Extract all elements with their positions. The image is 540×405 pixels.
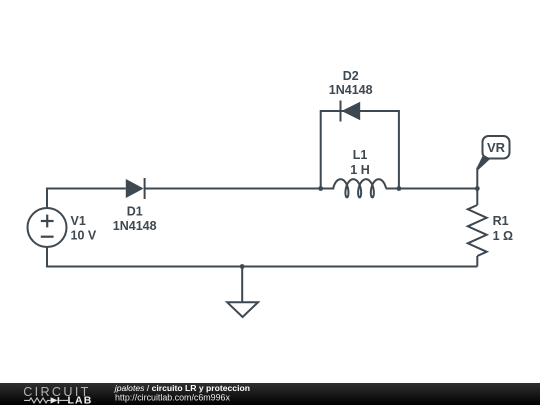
inductor L1 coil [333,179,386,197]
diode D1 triangle [126,179,144,198]
svg-text:L1: L1 [353,148,368,162]
V1 minus sign [41,236,54,238]
ground symbol triangle [227,302,258,317]
svg-text:http://circuitlab.com/c6m996x: http://circuitlab.com/c6m996x [115,393,230,403]
diode D2 triangle [342,102,361,120]
resistor R1 zigzag [468,205,487,256]
diode D1 cathode bar [144,178,146,199]
wire D2 bypass loop [321,111,399,189]
logo diode output line [59,399,68,401]
wire R1 top lead [476,189,478,206]
wire bottom rail [47,247,477,267]
V1 plus sign [41,215,54,237]
wire from L1 right to VR junction [386,188,478,190]
junction node dot VR [475,186,480,191]
svg-text:1N4148: 1N4148 [113,219,157,233]
flag VR box [483,136,510,159]
svg-text:1N4148: 1N4148 [329,83,373,97]
svg-text:R1: R1 [493,214,509,228]
logo diode symbol [51,397,58,403]
wire VR stem [476,168,478,189]
junction node dot ground [240,264,245,269]
svg-text:D2: D2 [343,69,359,83]
svg-text:10 V: 10 V [71,229,97,243]
wire R1 bottom lead [476,256,478,267]
flag VR pointer wedge [477,155,490,170]
svg-text:V1: V1 [71,214,86,228]
junction node dot L1 left [318,186,323,191]
svg-text:VR: VR [487,140,506,155]
svg-text:LAB: LAB [68,395,93,405]
svg-text:1 H: 1 H [350,163,369,177]
svg-text:jpalotes / circuito LR y prote: jpalotes / circuito LR y proteccion [114,383,250,393]
logo resistor squiggle [24,398,50,403]
voltage source V1 circle [28,208,67,247]
wire ground stem [241,267,243,303]
diode D2 cathode bar [340,101,342,122]
wire top-left vertical from V1 to top rail [47,189,126,209]
junction node dot L1 right [397,186,402,191]
svg-text:1 Ω: 1 Ω [493,229,513,243]
svg-text:D1: D1 [127,204,143,218]
wire from D1 cathode to L1 left junction [146,188,335,190]
